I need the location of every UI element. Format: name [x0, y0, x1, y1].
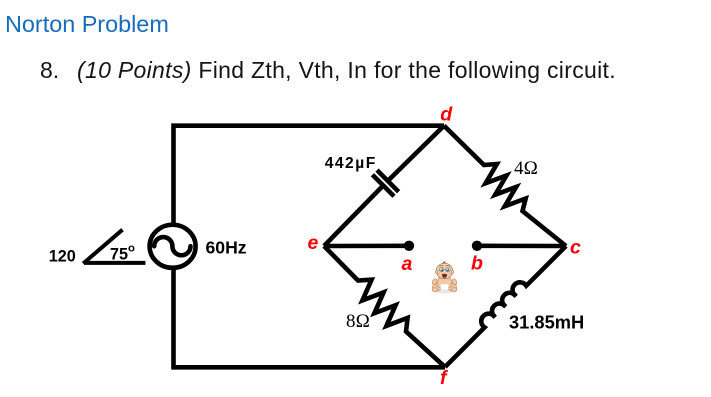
resistor R1 4ohm zigzag on edge d-c — [444, 126, 566, 246]
terminal b dot — [472, 241, 482, 251]
svg-text:75o: 75o — [110, 242, 135, 263]
problem statement — [77, 57, 616, 84]
svg-text:b: b — [471, 252, 483, 274]
wire: edge d-e upper part (node d to capacitor) — [388, 126, 444, 181]
title: Norton Problem — [5, 11, 169, 38]
inductor L1 coil on edge f-c — [445, 246, 566, 367]
svg-text:8Ω: 8Ω — [346, 311, 370, 332]
resistor R2 8ohm zigzag on edge e-f — [324, 246, 445, 367]
svg-text:e: e — [308, 232, 319, 254]
wire: top-left loop (source top to node d) — [174, 126, 445, 228]
AC source sine symbol — [154, 237, 190, 255]
svg-text:a: a — [402, 253, 413, 275]
baby clipart between a and b — [431, 262, 457, 293]
svg-text:31.85mH: 31.85mH — [509, 312, 584, 333]
svg-text:4Ω: 4Ω — [514, 158, 538, 179]
wire: bottom-left loop (source bottom to node f) — [174, 265, 446, 367]
svg-text:d: d — [440, 104, 453, 126]
svg-text:120: 120 — [49, 247, 76, 265]
wire: node e to terminal a — [324, 244, 409, 249]
terminal a dot — [404, 241, 414, 251]
svg-text:c: c — [570, 237, 581, 259]
phase angle symbol — [83, 230, 145, 264]
capacitor C1 plates — [377, 170, 399, 192]
wire: edge d-e lower part (capacitor to node e) — [324, 186, 383, 247]
AC source U1 circle — [150, 225, 196, 268]
wire: terminal b to node c — [477, 244, 566, 249]
svg-text:442µF: 442µF — [325, 155, 377, 172]
svg-text:60Hz: 60Hz — [206, 238, 247, 258]
problem number 8. — [40, 57, 59, 84]
svg-text:f: f — [440, 367, 449, 389]
